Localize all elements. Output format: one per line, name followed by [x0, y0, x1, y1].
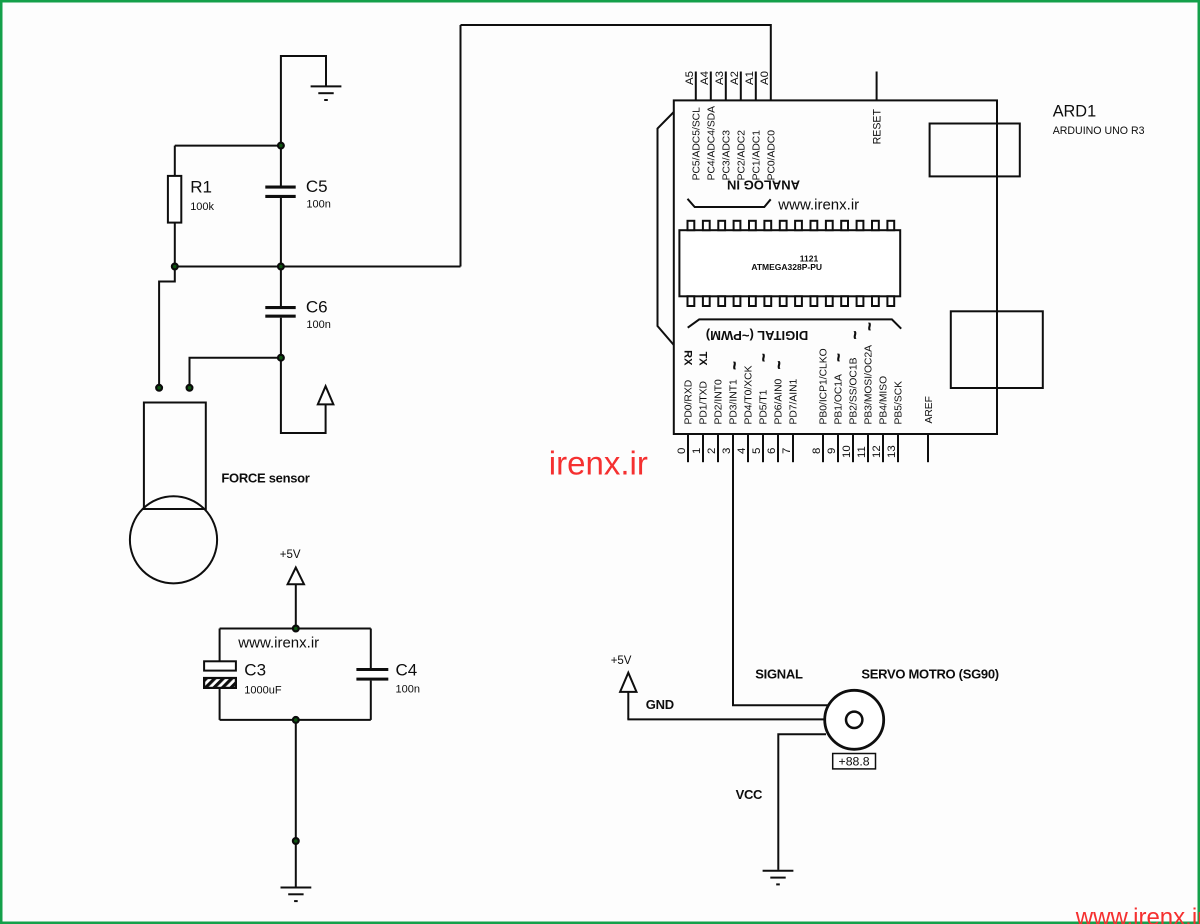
+5V power arrow above C3/C4 [280, 549, 304, 629]
node at R1/mid row junction [172, 264, 178, 270]
svg-text:ARD1: ARD1 [1053, 102, 1096, 120]
svg-text:100n: 100n [396, 683, 420, 695]
servo angle readout box +88.8 [833, 754, 876, 769]
node force sensor terminal 2 [187, 385, 193, 391]
svg-text:C6: C6 [306, 298, 328, 317]
svg-text:ATMEGA328P-PU: ATMEGA328P-PU [751, 262, 822, 272]
capacitor C4 [356, 660, 420, 695]
svg-text:+5V: +5V [611, 655, 632, 667]
node at C5/C6 mid row junction [278, 264, 284, 270]
svg-text:2: 2 [706, 448, 718, 454]
svg-text:PC3/ADC3: PC3/ADC3 [722, 130, 733, 181]
wire from mid row down-left to force sensor pin 1 [159, 267, 175, 388]
resistor R1 [168, 176, 215, 223]
svg-text:A0: A0 [759, 71, 771, 85]
pin A4 stub [710, 72, 712, 101]
svg-text:100n: 100n [306, 199, 330, 211]
wire top node row R1 to C5 [175, 145, 281, 147]
svg-text:PD2/INT0: PD2/INT0 [714, 379, 725, 424]
svg-text:AREF: AREF [924, 396, 935, 423]
svg-text:PC0/ADC0: PC0/ADC0 [767, 130, 778, 181]
svg-text:PD4/T0/XCK: PD4/T0/XCK [744, 365, 755, 424]
svg-text:PB0/ICP1/CLKO: PB0/ICP1/CLKO [819, 348, 830, 424]
svg-text:irenx.ir: irenx.ir [549, 445, 648, 482]
svg-text:3: 3 [721, 448, 733, 454]
svg-text:ANALOG IN: ANALOG IN [727, 178, 800, 193]
wire C6 bottom lead [280, 318, 282, 358]
ground (servo VCC) [763, 871, 794, 885]
+5V power arrow (servo) [611, 655, 637, 720]
svg-text:7: 7 [781, 448, 793, 454]
pin A3 stub [725, 72, 727, 101]
arduino board edge notch [658, 112, 674, 345]
svg-text:100n: 100n [306, 319, 330, 331]
svg-text:13: 13 [886, 445, 898, 458]
arduino power jack outline [951, 311, 1043, 388]
svg-text:C4: C4 [396, 660, 418, 679]
wire C3/C4 loop top edge [220, 628, 371, 630]
wire C6 top lead [280, 267, 282, 307]
svg-text:PB3/MOSI/OC2A: PB3/MOSI/OC2A [864, 345, 875, 425]
node at C6 bottom junction [278, 355, 284, 361]
arduino ARD1 body [674, 100, 997, 434]
svg-text:PD3/INT1: PD3/INT1 [729, 379, 740, 424]
wire from C6 node down to input arrow [281, 358, 326, 433]
wire servo VCC down to ground [778, 734, 826, 870]
pin A1 stub [755, 72, 757, 101]
svg-text:R1: R1 [190, 178, 212, 197]
servo motor shaft [846, 712, 862, 728]
svg-text:A4: A4 [699, 71, 711, 85]
svg-text:PD5/T1: PD5/T1 [759, 389, 770, 424]
pin A2 stub [740, 72, 742, 101]
svg-text:~: ~ [846, 331, 862, 339]
wire C4 bottom lead [370, 681, 372, 720]
wire servo signal from pin 3 [733, 434, 830, 705]
svg-text:PC2/ADC2: PC2/ADC2 [737, 130, 748, 181]
svg-text:100k: 100k [190, 201, 214, 213]
pin 13 stub [897, 434, 899, 462]
svg-text:~: ~ [755, 354, 771, 362]
pin 2 stub [717, 434, 719, 462]
wire middle row from R1 to x=460 [175, 266, 461, 268]
wire servo GND [627, 718, 826, 720]
pin 6 stub [777, 434, 779, 462]
svg-text:PB4/MISO: PB4/MISO [879, 376, 890, 425]
svg-text:+5V: +5V [280, 549, 301, 561]
svg-text:PB5/SCK: PB5/SCK [894, 381, 905, 425]
FORCE sensor body [130, 403, 310, 584]
arduino USB connector outline [930, 124, 1020, 177]
capacitor C3 (electrolytic) [204, 660, 282, 696]
node at C3/C4 loop bottom [293, 717, 299, 723]
svg-text:www.irenx.ir: www.irenx.ir [1075, 904, 1200, 924]
analog bracket [688, 199, 771, 207]
svg-text:C3: C3 [244, 660, 266, 679]
pin AREF stub [927, 434, 929, 462]
svg-text:SERVO MOTRO (SG90): SERVO MOTRO (SG90) [861, 667, 998, 682]
svg-text:1: 1 [691, 448, 703, 454]
pin 5 stub [762, 434, 764, 462]
svg-text:8: 8 [811, 448, 823, 454]
node force sensor terminal 1 [156, 385, 162, 391]
wire top from C5/C6 junction column up and across to Arduino A0 [461, 25, 771, 100]
svg-text:~: ~ [726, 361, 742, 369]
IC top pins [688, 221, 895, 230]
svg-text:1000uF: 1000uF [244, 685, 282, 697]
svg-text:9: 9 [826, 448, 838, 454]
pin 10 stub [852, 434, 854, 462]
svg-text:DIGITAL (~PWM): DIGITAL (~PWM) [706, 328, 808, 343]
pin 0 stub [687, 434, 689, 462]
svg-text:~: ~ [770, 361, 786, 369]
svg-text:+88.8: +88.8 [839, 754, 870, 768]
svg-text:ARDUINO UNO R3: ARDUINO UNO R3 [1053, 125, 1145, 137]
wire C3 bottom lead [219, 688, 221, 720]
svg-text:PD7/AIN1: PD7/AIN1 [789, 378, 800, 424]
svg-text:12: 12 [871, 445, 883, 458]
wire C3 top lead [219, 629, 221, 662]
svg-text:TX: TX [697, 352, 709, 367]
wire C5 bottom lead [280, 198, 282, 267]
wire C4 top lead [370, 629, 372, 669]
pin 7 stub [792, 434, 794, 462]
svg-text:VCC: VCC [736, 787, 763, 802]
wire R1 bottom lead [174, 223, 176, 267]
svg-text:11: 11 [856, 446, 868, 458]
svg-text:0: 0 [676, 448, 688, 454]
node at C3/C4 loop top [293, 626, 299, 632]
ground (top-left) [311, 86, 342, 100]
svg-text:~: ~ [861, 322, 877, 330]
svg-text:PD6/AIN0: PD6/AIN0 [774, 378, 785, 424]
pin 4 stub [747, 434, 749, 462]
servo motor body [825, 690, 884, 749]
svg-text:4: 4 [736, 448, 748, 454]
svg-text:PD0/RXD: PD0/RXD [684, 380, 695, 425]
capacitor C5 [265, 177, 331, 211]
svg-text:FORCE sensor: FORCE sensor [221, 470, 309, 485]
svg-text:A5: A5 [684, 71, 696, 85]
svg-text:PB2/SS/OC1B: PB2/SS/OC1B [849, 357, 860, 424]
svg-text:SIGNAL: SIGNAL [755, 667, 803, 682]
capacitor C6 [265, 298, 331, 332]
pin 11 stub [867, 434, 869, 462]
input arrow (to ADC) [318, 386, 334, 404]
pin 12 stub [882, 434, 884, 462]
svg-text:PB1/OC1A: PB1/OC1A [834, 374, 845, 424]
svg-text:~: ~ [830, 353, 846, 361]
wire branch up to top ground [281, 56, 326, 146]
wire from loop bottom to ground [295, 720, 297, 887]
svg-text:PD1/TXD: PD1/TXD [699, 381, 710, 425]
svg-text:10: 10 [841, 445, 853, 458]
pin 9 stub [837, 434, 839, 462]
IC bottom pins [688, 296, 895, 306]
svg-text:RX: RX [681, 350, 693, 366]
wire vertical x=460 down to middle row [460, 25, 462, 267]
svg-text:A3: A3 [714, 71, 726, 85]
IC U1 ATMEGA328P body [679, 230, 900, 296]
svg-text:A2: A2 [729, 71, 741, 85]
pin 8 stub [822, 434, 824, 462]
svg-text:PC1/ADC1: PC1/ADC1 [752, 130, 763, 181]
svg-text:PC5/ADC5/SCL: PC5/ADC5/SCL [692, 107, 703, 181]
node on ground wire [293, 838, 299, 844]
digital bracket [688, 319, 902, 328]
svg-text:5: 5 [751, 448, 763, 454]
wire C3/C4 loop bottom edge [220, 719, 371, 721]
pin RESET stub [876, 72, 878, 101]
pin A5 stub [695, 72, 697, 101]
svg-text:PC4/ADC4/SDA: PC4/ADC4/SDA [707, 106, 718, 181]
svg-text:GND: GND [646, 697, 674, 712]
ground (below C3/C4) [281, 888, 312, 902]
svg-text:www.irenx.ir: www.irenx.ir [777, 197, 859, 214]
svg-text:C5: C5 [306, 177, 328, 196]
svg-text:www.irenx.ir: www.irenx.ir [237, 634, 319, 651]
node at C5 top junction [278, 143, 284, 149]
svg-text:6: 6 [766, 448, 778, 454]
wire C5 top lead [280, 146, 282, 186]
pin 1 stub [702, 434, 704, 462]
wire R1 top lead [174, 146, 176, 176]
svg-text:RESET: RESET [871, 109, 883, 145]
svg-text:A1: A1 [744, 71, 756, 85]
wire from C6 node left to force sensor pin 2 [190, 358, 281, 388]
